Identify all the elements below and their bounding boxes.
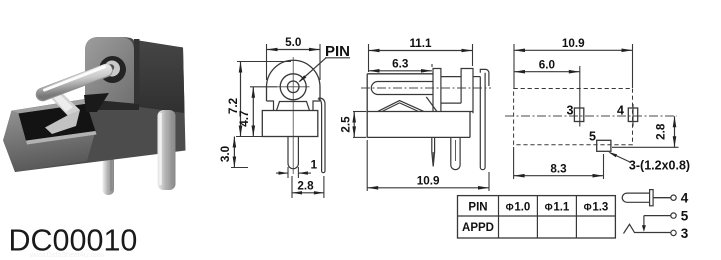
svg-text:5: 5 bbox=[681, 209, 689, 224]
svg-text:PIN: PIN bbox=[468, 202, 487, 214]
svg-text:8.3: 8.3 bbox=[550, 162, 567, 175]
svg-text:4: 4 bbox=[681, 191, 689, 206]
svg-text:1: 1 bbox=[310, 158, 317, 172]
svg-text:5: 5 bbox=[589, 130, 596, 144]
svg-text:11.1: 11.1 bbox=[409, 37, 432, 50]
svg-text:2.5: 2.5 bbox=[340, 116, 353, 133]
svg-text:6.0: 6.0 bbox=[539, 59, 556, 72]
svg-text:3-(1.2x0.8): 3-(1.2x0.8) bbox=[629, 159, 690, 173]
svg-text:www.DataSheet4U.com: www.DataSheet4U.com bbox=[29, 252, 104, 259]
svg-text:5.0: 5.0 bbox=[285, 36, 302, 49]
svg-text:6.3: 6.3 bbox=[392, 58, 409, 71]
svg-text:4: 4 bbox=[617, 104, 624, 118]
svg-text:3.0: 3.0 bbox=[219, 145, 232, 162]
svg-text:Φ1.3: Φ1.3 bbox=[584, 202, 609, 214]
svg-text:Φ1.0: Φ1.0 bbox=[506, 202, 531, 214]
svg-text:Φ1.1: Φ1.1 bbox=[545, 202, 570, 214]
svg-text:2.8: 2.8 bbox=[297, 179, 314, 192]
svg-text:APPD: APPD bbox=[462, 222, 494, 234]
svg-text:3: 3 bbox=[681, 226, 689, 241]
svg-text:4.7: 4.7 bbox=[238, 111, 251, 127]
svg-text:2.8: 2.8 bbox=[655, 123, 668, 140]
svg-text:10.9: 10.9 bbox=[417, 175, 440, 188]
svg-text:10.9: 10.9 bbox=[562, 37, 585, 50]
svg-text:3: 3 bbox=[567, 104, 574, 118]
